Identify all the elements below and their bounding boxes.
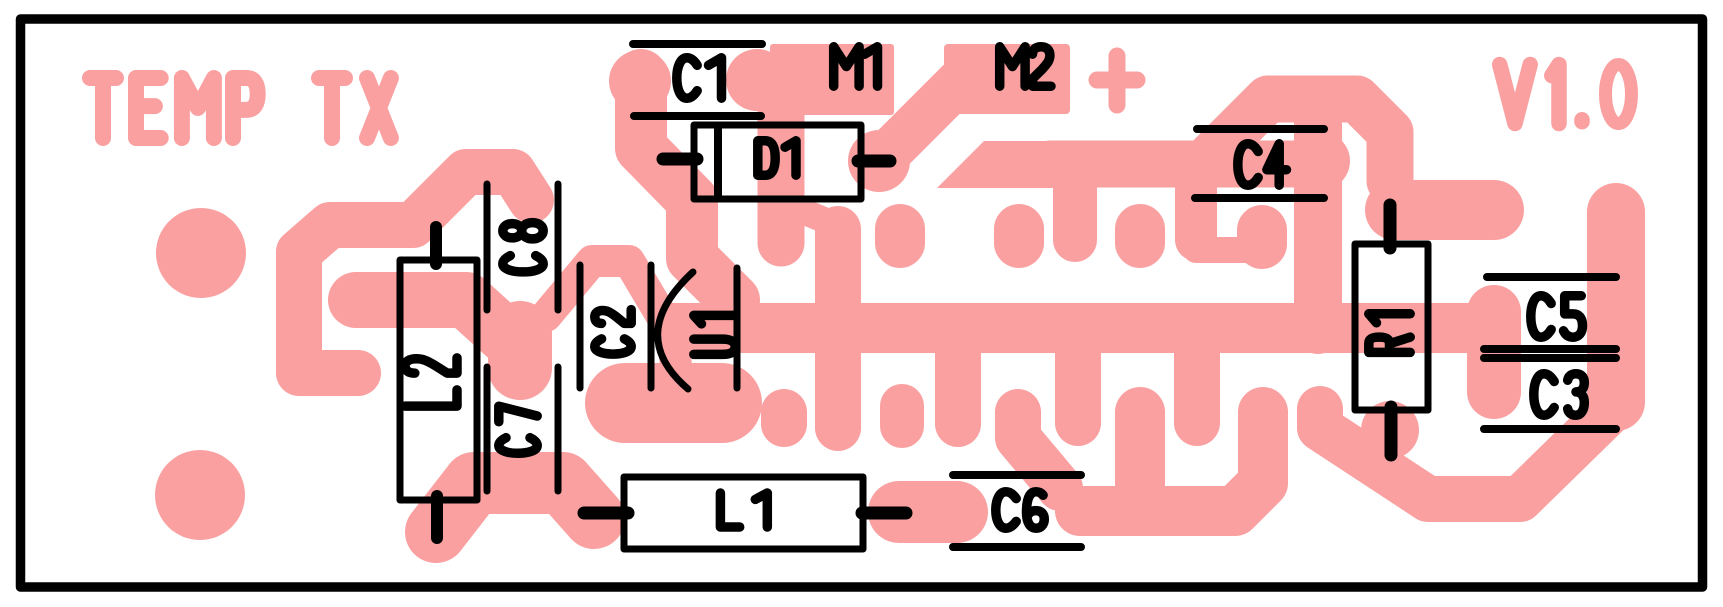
capacitor C1 silkscreen lines: [633, 44, 762, 116]
wire: finger x=1140 up: [1115, 412, 1165, 495]
label U1 rotated: [694, 315, 735, 354]
wire: M1 pad column down: [758, 110, 805, 243]
inductor L2 bottom pin: [431, 496, 443, 538]
capacitor C7 silkscreen lines: [487, 367, 558, 491]
wire: M2 to D1 right pad diagonal: [881, 73, 968, 160]
label L2 rotated: [405, 358, 457, 406]
pad: floating oval 3: [1115, 229, 1165, 243]
node: U1 pad capsule: [625, 363, 722, 443]
wire: lower-right band y=510: [1080, 412, 1263, 511]
pad: D1 right pad: [848, 130, 910, 192]
wire: arch over C4: [1205, 99, 1390, 181]
wire: bridge M1 column to x838: [800, 210, 831, 223]
pad: floating oval 1: [875, 229, 925, 243]
diode D1 outline: [694, 125, 861, 199]
label D1: [758, 141, 796, 175]
transistor U1 flat side: [734, 268, 741, 388]
capacitor C3 silkscreen lines: [1484, 358, 1616, 429]
wire: stub down x=1197: [1174, 350, 1220, 423]
capacitor C6 silkscreen lines: [953, 475, 1081, 547]
label R1 rotated: [1369, 314, 1410, 353]
wire: lower-left trace behind L2: [356, 300, 509, 339]
wire: bottom-left blob L2/C7/L1: [436, 483, 594, 532]
label C3: [1534, 374, 1585, 415]
pad: floating oval 2: [994, 229, 1044, 243]
wire: finger to C6 right pad: [1018, 412, 1060, 488]
pad: C4 right pad: [1292, 132, 1350, 190]
pad: C5 left capsule: [1467, 312, 1521, 392]
wire: net C1/L2/C8 upper-left trace: [299, 172, 531, 373]
diode D1 right pin: [858, 155, 890, 168]
label C6: [996, 492, 1045, 528]
diode D1 cathode band: [714, 127, 722, 197]
wire: vertical x=1318 C4 right pad to bus: [1294, 105, 1342, 330]
pad: capsule at x784 below U1 blob: [761, 412, 807, 424]
wire: hump trace over C2 label: [546, 261, 676, 366]
wire: arch right run to pad: [1395, 180, 1494, 240]
capacitor C4 silkscreen lines: [1195, 129, 1324, 198]
wire: upper horizontal bus y=164 chamfered left end: [937, 141, 1060, 188]
wire: stub down from upper bus x=1075: [1053, 185, 1097, 240]
resistor R1 top pin: [1384, 205, 1397, 248]
wire: vertical through bus at x=838: [815, 229, 861, 428]
inductor L1 right pin: [862, 507, 906, 520]
wire: V-shaped net lower run: [1320, 409, 1608, 499]
pad: capsule right of U1: [880, 406, 924, 426]
label L1: [720, 493, 767, 527]
wire: stub down x=958: [935, 350, 981, 424]
inductor L2 outline: [400, 260, 477, 500]
transistor U1 outline arc: [658, 272, 693, 389]
version V1.0: [1500, 65, 1632, 124]
capacitor C5 silkscreen lines: [1484, 277, 1616, 349]
label C5: [1531, 296, 1583, 337]
pad: mounting hole top-left: [156, 208, 246, 298]
label C2 rotated: [595, 310, 631, 355]
wire: upper horizontal bus y=164: [1050, 141, 1320, 188]
pad: C1 right pad: [726, 49, 788, 111]
label C4: [1238, 144, 1287, 185]
wire: middle horizontal bus y=328 square left end: [672, 303, 722, 353]
label C8 rotated: [503, 223, 543, 272]
title TEMP TX: [90, 78, 391, 138]
wire: C5/C3 right pad column: [1587, 212, 1645, 402]
wire: neck to C4 left pad: [1196, 237, 1247, 263]
capacitor C2 silkscreen lines: [580, 265, 651, 388]
label C7 rotated: [499, 406, 537, 453]
pad: R1 bottom pad on diagonal: [1361, 401, 1419, 459]
inductor L1 outline: [624, 477, 863, 549]
wire: stub down x=1078: [1055, 350, 1101, 423]
pad: mounting hole bottom-left: [155, 450, 245, 540]
capacitor C8 silkscreen lines: [487, 184, 558, 310]
pad M2: [944, 44, 1070, 114]
label M2: [1000, 47, 1051, 86]
wire: neck bus to C5 capsule: [1455, 307, 1480, 337]
wire: stub down from upper bus x=1196: [1175, 185, 1217, 240]
pad: C4 left pad: [1237, 230, 1287, 244]
pad M1: [770, 44, 894, 115]
node: C8 bottom / C7 top pad column: [488, 333, 552, 368]
wire: C1 left pad column down to bus: [641, 75, 734, 300]
wire: middle horizontal bus y=328: [700, 303, 1468, 353]
resistor R1 bottom pin: [1385, 407, 1398, 455]
plus symbol: [1097, 56, 1137, 105]
resistor R1 outline: [1355, 244, 1428, 410]
diode D1 left pin: [663, 153, 697, 166]
inductor L1 left pin: [584, 507, 628, 520]
inductor L2 top pin: [430, 227, 442, 264]
pad: C1 left pad: [609, 50, 671, 112]
label C1: [677, 58, 722, 98]
label M1: [834, 47, 878, 86]
pad: C6 left capsule: [899, 481, 957, 543]
